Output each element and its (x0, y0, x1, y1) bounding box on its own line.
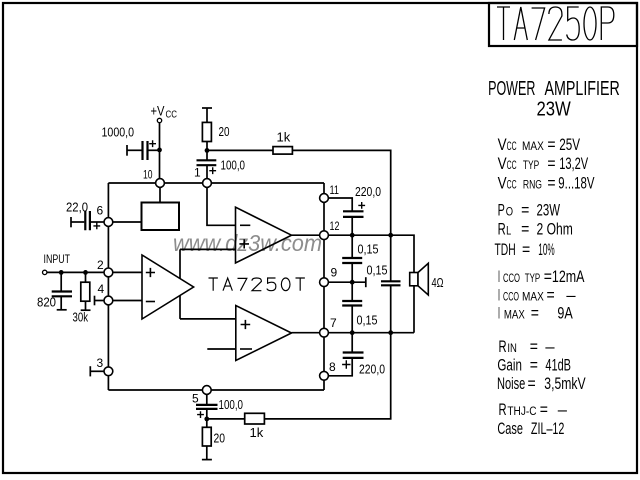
svg-text:0,15: 0,15 (358, 242, 379, 257)
speaker LS1 body (410, 273, 418, 286)
svg-text:25V: 25V (559, 136, 580, 154)
resistor R1 body (202, 122, 211, 141)
capacitor C5 bottom lead wire (206, 409, 208, 419)
svg-text:O: O (506, 206, 513, 218)
capacitor C5 polarity plus (197, 411, 204, 418)
node10 to bias block wire (159, 187, 161, 203)
svg-text:=: = (530, 357, 538, 375)
+Vcc terminal (157, 118, 161, 122)
capacitor C8 plates (381, 281, 401, 285)
svg-text:CC: CC (507, 179, 517, 191)
svg-text:0,15: 0,15 (357, 313, 378, 328)
capacitor C5 plates (196, 405, 218, 409)
pin 4 to U1a wire (113, 300, 142, 302)
op-amp U1c (bottom output) (236, 306, 292, 361)
top bus wire (108, 182, 324, 184)
capacitor C10 plates (343, 353, 364, 358)
svg-text:TYP: TYP (525, 273, 541, 285)
junction input/R3 (83, 270, 88, 275)
capacitor C4 820 top lead wire (60, 272, 62, 291)
svg-text:IN: IN (507, 343, 517, 355)
svg-text:23W: 23W (537, 99, 571, 121)
capacitor C1 1000,0 end bar (126, 145, 128, 156)
svg-text:5: 5 (192, 392, 199, 406)
svg-text:R: R (498, 220, 506, 238)
pin 9 circle (320, 278, 329, 287)
svg-text:RNG: RNG (523, 179, 542, 191)
svg-text:I: I (498, 268, 500, 286)
capacitor C6 220,0 plates (343, 211, 364, 217)
U1c output to pin7 wire (292, 332, 325, 334)
svg-text:R: R (499, 338, 507, 356)
resistor R1 bottom lead wire (206, 142, 208, 161)
capacitor C9 bottom lead wire (351, 306, 353, 333)
svg-text:23W: 23W (537, 201, 561, 219)
svg-text:P: P (498, 201, 505, 219)
pin 8 circle (320, 371, 329, 380)
node1 to U1b inverting input wire (207, 187, 236, 225)
svg-text:6: 6 (97, 204, 104, 218)
title text TA7250P (497, 7, 614, 40)
pin 10 circle (156, 179, 165, 188)
svg-text:220,0: 220,0 (359, 361, 385, 376)
capacitor C1 polarity plus (149, 140, 156, 147)
svg-text:V: V (498, 136, 507, 154)
svg-text:30k: 30k (73, 310, 89, 325)
resistor R3 end bar (81, 309, 91, 311)
resistor R2 1k top wire (207, 149, 273, 151)
svg-text:V: V (498, 174, 507, 192)
svg-text:=: = (547, 174, 555, 192)
svg-text:=: = (540, 401, 548, 419)
svg-text:20: 20 (219, 124, 230, 139)
pin 9 stub end bar (365, 277, 367, 287)
svg-text:3: 3 (97, 356, 104, 370)
svg-text:R: R (499, 401, 507, 419)
svg-text:TDH: TDH (495, 241, 516, 259)
svg-text:INPUT: INPUT (44, 252, 71, 266)
resistor R1 top lead wire (206, 108, 208, 122)
spec text block (488, 78, 620, 438)
junction Vcc/C1 (157, 148, 162, 153)
resistor R2 to right rail wire (292, 150, 390, 235)
pin 6 circle (104, 218, 113, 227)
svg-text:www.dz3w.com: www.dz3w.com (173, 230, 322, 256)
U1c minus sign (240, 348, 252, 350)
right pin bus wire (323, 183, 325, 390)
capacitor C4 bottom lead wire (60, 296, 62, 310)
svg-text:13,2V: 13,2V (559, 155, 588, 173)
svg-text:7: 7 (330, 316, 337, 330)
capacitor C8 rail leads wire (390, 235, 392, 333)
svg-text:8: 8 (329, 360, 336, 374)
svg-text:10: 10 (143, 168, 153, 182)
pin 9 stub wire (328, 281, 365, 283)
svg-text:0,15: 0,15 (367, 263, 388, 278)
svg-text:–: – (566, 287, 576, 305)
resistor R2 body (273, 147, 292, 155)
svg-text:2: 2 (97, 258, 104, 272)
capacitor C10 polarity plus (342, 360, 350, 368)
svg-text:L: L (506, 225, 512, 237)
capacitor C2 lead wire (206, 165, 208, 178)
svg-text:=: = (531, 305, 539, 323)
pin 2 to U1a wire (113, 271, 142, 273)
svg-text:12mA: 12mA (552, 268, 585, 286)
svg-text:MAX: MAX (522, 292, 544, 304)
pin 11 circle (320, 194, 329, 203)
U1b output to pin12 wire (292, 234, 325, 236)
svg-text:TYP: TYP (523, 160, 540, 172)
capacitor C3 22,0 end bar (70, 217, 72, 227)
svg-text:=: = (547, 136, 555, 154)
capacitor C4 end bar (57, 309, 67, 311)
svg-text:=: = (547, 287, 555, 305)
svg-text:–: – (558, 401, 568, 419)
svg-text:2 Ohm: 2 Ohm (537, 220, 573, 238)
input wire (47, 271, 104, 273)
svg-text:CC: CC (166, 110, 178, 121)
resistor R3 body (81, 282, 90, 301)
svg-text:41dB: 41dB (545, 357, 571, 375)
resistor R4 bottom lead wire (206, 446, 208, 460)
svg-text:I: I (498, 287, 500, 305)
capacitor C1 plates (143, 141, 148, 160)
svg-text:100,0: 100,0 (219, 397, 244, 412)
resistor R4 body (202, 427, 211, 446)
svg-text:1k: 1k (277, 130, 291, 145)
pin 3 stub wire (90, 370, 104, 372)
op-amp white bodies (142, 255, 194, 319)
pin 4 stub wire (95, 300, 105, 302)
pin 7 circle (320, 328, 329, 337)
svg-text:=: = (528, 375, 536, 393)
op-amp U1a (input) (142, 255, 194, 319)
svg-text:THJ-C: THJ-C (507, 406, 536, 418)
svg-text:9: 9 (331, 266, 338, 280)
capacitor C2 100,0 plates (197, 160, 217, 165)
junction rail/pin7 (388, 330, 393, 335)
capacitor C3 lead wire (71, 221, 84, 223)
branch to U1c noninverting input wire (180, 318, 236, 320)
pin 12 circle (320, 231, 329, 240)
U1a plus sign (146, 268, 155, 277)
pin 6 to bias block wire (113, 221, 142, 223)
resistor R4 end bar (202, 459, 212, 461)
junction R1/R2/C2 (205, 148, 210, 153)
svg-text:10%: 10% (538, 241, 555, 259)
node5 to U1c inverting input wire (207, 348, 236, 350)
pin 7 net wire (328, 332, 414, 334)
resistor R5 1k bottom wire (207, 418, 245, 420)
bias block (142, 203, 180, 231)
svg-text:=: = (522, 241, 530, 259)
svg-text:–: – (545, 338, 555, 356)
speaker LS1 lower lead wire (413, 286, 415, 333)
resistor R3 bottom lead wire (85, 301, 87, 310)
svg-text:ZIL–12: ZIL–12 (531, 420, 565, 438)
svg-text:11: 11 (330, 183, 340, 197)
pin 2 circle (104, 268, 113, 277)
U1c plus sign (241, 320, 251, 329)
U1a minus sign (146, 301, 155, 303)
capacitor C3 lead to pin6 wire (91, 221, 104, 223)
svg-text:Gain: Gain (497, 357, 521, 375)
svg-text:=: = (521, 220, 529, 238)
svg-text:22,0: 22,0 (66, 201, 88, 215)
capacitor C1 lead to node wire (149, 149, 160, 151)
junction C9/C10 (350, 330, 355, 335)
IC name TA7250T (209, 278, 305, 291)
svg-text:9A: 9A (557, 305, 572, 323)
svg-text:MAX: MAX (504, 310, 525, 322)
capacitor C7 plates (342, 258, 362, 263)
pin 4 stub end bar (94, 296, 96, 306)
pin 11 to C6 wire (328, 198, 352, 211)
svg-text:9...18V: 9...18V (558, 174, 594, 192)
capacitor C6 polarity plus (358, 202, 365, 209)
svg-text:=: = (521, 201, 529, 219)
capacitor C4 plates (52, 292, 72, 297)
svg-text:=: = (530, 338, 538, 356)
svg-text:Noise: Noise (497, 375, 525, 393)
junction C7/C9 (350, 280, 355, 285)
svg-text:1000,0: 1000,0 (102, 125, 135, 140)
svg-text:V: V (498, 155, 507, 173)
capacitor C7 0,15 top lead wire (351, 235, 353, 258)
branch to U1b noninverting input wire (180, 248, 236, 250)
capacitor C2 polarity plus (209, 167, 216, 174)
svg-text:CCO: CCO (503, 273, 520, 285)
svg-text:CC: CC (507, 160, 517, 172)
junction rail/pin12 (388, 233, 393, 238)
resistor R5 to right rail wire (264, 333, 390, 419)
svg-text:1: 1 (194, 166, 201, 180)
svg-text:20: 20 (214, 431, 226, 446)
svg-text:4Ω: 4Ω (432, 275, 444, 290)
junction C5/R4/R5 (204, 417, 209, 422)
title box (489, 3, 637, 46)
junction C6/C7 (350, 233, 355, 238)
capacitor C5 100,0 top lead wire (206, 394, 208, 405)
U1b plus sign (239, 239, 249, 248)
svg-text:MAX: MAX (522, 141, 544, 153)
capacitor C6 bottom lead wire (351, 217, 353, 235)
resistor R1 20 top T-bar (202, 107, 212, 109)
resistor R4 20 top lead wire (206, 419, 208, 427)
svg-text:=: = (547, 155, 555, 173)
svg-text:3,5mkV: 3,5mkV (544, 375, 585, 393)
U1b minus sign (240, 224, 250, 226)
pin 4 circle (104, 296, 113, 305)
resistor R5 body (245, 413, 265, 424)
capacitor C9 0,15 top lead wire (351, 282, 353, 301)
resistor R3 30k top lead wire (85, 272, 87, 282)
IC output branch wire (hidden behind op-amp body) (179, 249, 181, 319)
svg-text:CCO: CCO (503, 292, 519, 304)
svg-text:220,0: 220,0 (355, 184, 381, 199)
svg-text:AMPLIFIER: AMPLIFIER (545, 78, 620, 100)
svg-text:1k: 1k (250, 425, 264, 440)
pin 5 circle (202, 386, 211, 395)
Vcc lead wire (159, 123, 161, 184)
svg-text:POWER: POWER (488, 78, 535, 100)
bottom bus wire (108, 389, 324, 391)
capacitor C3 plates (85, 211, 90, 230)
pin 12 net wire (328, 235, 414, 272)
capacitor C9 plates (342, 301, 362, 306)
pin 1 circle (203, 179, 212, 188)
svg-text:+V: +V (151, 103, 166, 119)
INPUT terminal (43, 270, 47, 274)
capacitor C10 bottom lead wire (328, 358, 352, 376)
svg-text:I: I (498, 305, 500, 323)
svg-text:Case: Case (497, 420, 523, 438)
pin 3 circle (104, 367, 113, 376)
capacitor C7 bottom lead wire (351, 263, 353, 282)
svg-text:100,0: 100,0 (221, 158, 246, 173)
junction input/C4 (59, 270, 64, 275)
capacitor C1 lead wire (127, 149, 142, 151)
svg-text:12: 12 (330, 219, 340, 233)
pin 3 stub end bar (89, 366, 91, 376)
capacitor C10 220,0 top lead wire (351, 333, 353, 353)
svg-text:4: 4 (98, 282, 105, 296)
speaker LS1 horn (418, 263, 428, 295)
svg-text:CC: CC (507, 141, 517, 153)
svg-text:820: 820 (37, 295, 56, 310)
capacitor C3 polarity plus (93, 223, 100, 230)
op-amp U1b (top output) (236, 207, 292, 263)
svg-text:=: = (544, 268, 552, 286)
left pin bus wire (107, 183, 109, 390)
